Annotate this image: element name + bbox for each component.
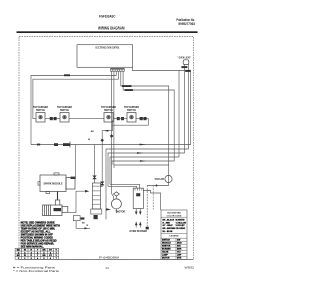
wire center drop 2 xyxy=(113,71,115,165)
valve pins xyxy=(45,205,51,216)
long wire to spark module xyxy=(31,144,191,146)
connector blob on fuse wire xyxy=(181,66,187,68)
burner box to legend-side riser xyxy=(143,191,160,211)
switch S4 xyxy=(127,113,136,123)
svg-text:* OVEN LAMP: * OVEN LAMP xyxy=(154,177,164,181)
svg-text:MOTOR: MOTOR xyxy=(162,258,170,260)
svg-text:TOP BURNER: TOP BURNER xyxy=(124,107,139,109)
ignitor pedestal xyxy=(91,209,102,214)
module output wire down xyxy=(57,192,59,201)
ignitor lead up xyxy=(94,145,96,184)
connector on line A xyxy=(64,74,70,76)
svg-text:MODULE: MODULE xyxy=(162,243,171,245)
svg-text:SWITCH: SWITCH xyxy=(60,110,69,112)
wire from fuse left pin down xyxy=(184,65,186,154)
drop from junction xyxy=(152,186,154,210)
switch S1 xyxy=(36,113,45,123)
valve wire right xyxy=(68,212,76,214)
bus L4 xyxy=(110,157,179,184)
svg-text:14: 14 xyxy=(105,266,109,270)
oven ignitor body xyxy=(93,183,101,209)
module left tab xyxy=(38,182,40,185)
lamp return wire xyxy=(147,183,168,186)
ignitor base blob xyxy=(94,215,98,219)
svg-text:SUGGESTED: SUGGESTED xyxy=(167,213,181,215)
connector blob on right wire xyxy=(185,70,191,72)
svg-text:BR - BROWN: BR - BROWN xyxy=(163,228,176,230)
diamond junction on drop xyxy=(110,134,114,138)
svg-text:SPARK MODULE: SPARK MODULE xyxy=(43,183,63,186)
wire terminal5 right xyxy=(121,71,169,175)
svg-text:BNR: BNR xyxy=(177,249,182,251)
oven lamp B1 xyxy=(165,175,172,182)
svg-text:SWITCH: SWITCH xyxy=(36,110,45,112)
feed wire 2 xyxy=(110,184,140,188)
bowtie connector 2 xyxy=(100,182,104,185)
arrow connector on L1 xyxy=(140,144,147,146)
svg-text:MTR: MTR xyxy=(177,258,182,260)
svg-text:WD02: WD02 xyxy=(185,265,195,269)
valve label xyxy=(54,208,62,211)
svg-text:W: W xyxy=(24,255,26,257)
svg-text:SWITCH: SWITCH xyxy=(162,240,170,242)
svg-text:ELECTRONIC OVEN CONTROL: ELECTRONIC OVEN CONTROL xyxy=(96,46,120,50)
arrow connector on L3 xyxy=(137,152,144,154)
frame bottom rule xyxy=(19,258,194,260)
arrow into motor left xyxy=(106,208,111,210)
electrode wires xyxy=(136,209,140,228)
junction dot xyxy=(156,185,158,187)
wires down from terminals center xyxy=(112,71,114,199)
svg-text:BK: BK xyxy=(17,250,21,252)
wire from connector box down-right xyxy=(76,221,90,229)
connector S1-S2 xyxy=(50,117,53,120)
diagram frame xyxy=(19,37,194,260)
module bottom tab xyxy=(46,192,50,194)
svg-text:W-WHITE: W-WHITE xyxy=(176,219,186,221)
notes text block xyxy=(21,221,60,248)
wire terminal3 left xyxy=(31,71,116,144)
connector blob right xyxy=(81,217,85,219)
burner box top ticks xyxy=(135,188,142,191)
svg-text:TOP BURNER: TOP BURNER xyxy=(101,107,116,109)
ignitor arrow feed xyxy=(85,190,89,193)
svg-text:MOD: MOD xyxy=(177,243,182,245)
burner box label blob xyxy=(136,193,140,196)
connector box below valve xyxy=(73,216,80,221)
svg-text:BL - BLUE: BL - BLUE xyxy=(163,231,174,233)
header separator rule xyxy=(17,31,198,33)
bowtie connector on lead xyxy=(93,176,97,179)
wire after S4 xyxy=(112,119,148,126)
svg-text:LEGEND: LEGEND xyxy=(169,235,179,237)
ground blob xyxy=(146,227,149,230)
svg-text:SWITCH: SWITCH xyxy=(127,110,136,112)
inline connector pair xyxy=(54,143,58,146)
svg-text:WIRING DIAGRAM: WIRING DIAGRAM xyxy=(98,26,125,31)
svg-text:5995277063: 5995277063 xyxy=(178,22,195,26)
wire color table xyxy=(15,248,59,259)
wire from control box bottom-right to right side xyxy=(133,67,191,70)
arrow on that wire xyxy=(84,227,88,229)
svg-text:VLV: VLV xyxy=(177,252,181,254)
svg-text:BR: BR xyxy=(42,250,46,252)
burner box xyxy=(133,188,143,208)
bus wires right half xyxy=(106,71,191,220)
svg-text:LMP: LMP xyxy=(177,255,182,257)
wire right riser xyxy=(190,71,192,145)
switch S3 xyxy=(104,113,113,123)
svg-text:BR: BR xyxy=(42,255,46,257)
wire S1-S2 xyxy=(45,118,60,120)
svg-text:IGNITOR: IGNITOR xyxy=(162,246,171,248)
svg-text:BK: BK xyxy=(17,255,21,257)
svg-text:W: W xyxy=(86,225,88,227)
connector S3-S4 xyxy=(117,117,120,120)
feed wire 1 xyxy=(108,186,137,188)
svg-text:TOP BURNER: TOP BURNER xyxy=(57,107,72,109)
svg-text:IGN: IGN xyxy=(177,246,181,248)
wire terminal6 right xyxy=(123,71,174,161)
module top tab xyxy=(54,173,59,175)
wire from fuse right pin down xyxy=(188,65,190,150)
svg-text:* OVEN LIGHT: * OVEN LIGHT xyxy=(178,55,191,59)
svg-text:OR-ORNG: OR-ORNG xyxy=(176,228,186,230)
left feed wires from control terminals xyxy=(31,71,174,175)
arrow connector on L5 xyxy=(140,160,146,162)
burner box feed wires xyxy=(108,184,161,210)
connector blob on module top xyxy=(71,177,76,179)
spark module box xyxy=(40,175,66,192)
diamond above motor xyxy=(114,192,120,196)
svg-text:W: W xyxy=(24,250,26,252)
bus L2 xyxy=(106,149,189,220)
motor circle M1 xyxy=(111,199,121,209)
ground drop wire xyxy=(146,186,148,228)
svg-text:P-64509W: P-64509W xyxy=(99,255,119,259)
wire center drop 1 xyxy=(112,71,114,199)
bus L5 xyxy=(112,161,174,165)
spark module side box xyxy=(66,178,75,189)
junction tick xyxy=(69,142,71,148)
svg-text:BK - BLACK: BK - BLACK xyxy=(163,218,175,221)
tap wire down at 179 xyxy=(178,71,180,158)
svg-text:# = Functioning Parts: # = Functioning Parts xyxy=(13,266,56,270)
electrode arrows down xyxy=(135,212,138,216)
bus L6 xyxy=(114,165,169,168)
wire S2-S3 xyxy=(69,118,104,120)
electrode arrows up xyxy=(135,222,138,226)
diamond junction on drop xyxy=(101,139,104,143)
svg-text:BURNER: BURNER xyxy=(162,249,171,251)
switch S2 xyxy=(60,113,69,123)
bus L3 xyxy=(108,153,185,186)
arrow on drop wire xyxy=(104,130,109,132)
legend box xyxy=(161,210,187,259)
svg-text:SWITCH: SWITCH xyxy=(104,110,113,112)
electronic oven control box U1 xyxy=(77,45,133,68)
valve to ignitor wire xyxy=(76,191,86,212)
svg-text:FGF333ASC: FGF333ASC xyxy=(99,14,116,18)
svg-text:OVEN BURNER: OVEN BURNER xyxy=(129,230,147,233)
svg-text:LAMP: LAMP xyxy=(162,254,168,257)
svg-text:R - RED: R - RED xyxy=(163,222,171,224)
connector after S4 xyxy=(140,117,143,120)
small connector on L1 left xyxy=(37,144,40,146)
svg-text:GY - GRAY: GY - GRAY xyxy=(163,224,174,227)
terminal hatch xyxy=(111,68,125,69)
svg-text:SEE MINI MANUAL.: SEE MINI MANUAL. xyxy=(21,245,44,248)
svg-text:Y-YELLOW: Y-YELLOW xyxy=(176,222,187,224)
svg-text:VALVE: VALVE xyxy=(162,251,169,254)
branch down to spark module xyxy=(74,145,76,177)
svg-text:BK: BK xyxy=(91,131,95,133)
gas valve assembly xyxy=(43,200,68,216)
terminal strip below control xyxy=(111,68,125,71)
svg-text:TOP BURNER: TOP BURNER xyxy=(33,107,48,109)
drop below S3 connector xyxy=(101,120,113,186)
svg-text:SW: SW xyxy=(177,240,180,242)
connector on line y90 xyxy=(125,89,133,91)
wire terminal4 left xyxy=(33,71,119,118)
connector on line y86 xyxy=(122,85,132,87)
wire motor bottom xyxy=(115,209,117,213)
svg-text:V-VIOLET: V-VIOLET xyxy=(176,225,186,227)
wire S3-S4 xyxy=(113,118,127,120)
svg-text:* = Non-Functional Parts: * = Non-Functional Parts xyxy=(13,269,60,273)
